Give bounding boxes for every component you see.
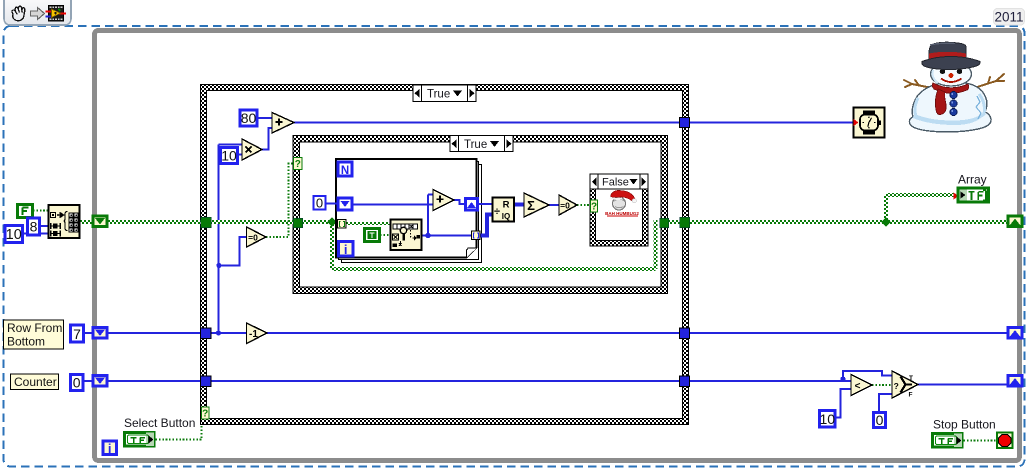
constant 7 (71, 325, 84, 342)
svg-text:i: i (344, 242, 348, 257)
hat (929, 42, 966, 59)
constant 80 (240, 110, 257, 126)
svg-text:8: 8 (30, 219, 38, 235)
shift register green up (loop right) (1008, 216, 1022, 227)
svg-text:N: N (341, 165, 349, 177)
constant 10 (left) (5, 226, 23, 244)
tunnel blue y=333 left (201, 328, 212, 339)
selector terminal ? of inner case (294, 158, 303, 171)
function add array elements (sum) (524, 193, 549, 217)
shift register blue down (counter) (93, 376, 107, 387)
eyes (940, 69, 946, 74)
svg-text:7: 7 (73, 326, 81, 342)
wire blue y=122 (+ output to Wait) (294, 122, 853, 124)
junction dot B (216, 330, 221, 335)
control terminal Select Button TF (125, 433, 155, 447)
svg-text:Counter: Counter (14, 375, 57, 389)
tool icon arrow (31, 8, 45, 20)
wire sum to equal zero (549, 204, 559, 206)
junction diamond green 1 (327, 217, 337, 227)
wire dotted green T to search node (380, 234, 390, 236)
shift register left (down arrow) (338, 198, 352, 210)
function add (inner) (433, 190, 454, 211)
scarf (932, 83, 969, 93)
selector terminal ? of false case (591, 200, 598, 213)
svg-text:80: 80 (241, 110, 257, 126)
svg-text:i: i (108, 441, 112, 456)
constant T (true) (365, 229, 380, 242)
svg-text:?: ? (295, 159, 301, 170)
wire multiply out to add (262, 128, 272, 150)
svg-text:?: ? (202, 409, 208, 420)
case structure CS3 (False) (590, 174, 648, 246)
tunnel auto-index left (bool array) (338, 220, 347, 229)
function multiply (242, 139, 262, 160)
node initialize array (49, 205, 80, 238)
wire blue y=333 (Row From Bottom) (84, 332, 1008, 334)
selector terminal ? of outer case (202, 407, 210, 420)
svg-text:=0: =0 (560, 201, 570, 211)
wire green bypass around for loop (332, 220, 1007, 269)
tunnel blue y=333 right (680, 328, 690, 339)
toolbar palette box (4, 0, 71, 25)
buttons (950, 91, 957, 115)
decoration snowman clipart (904, 42, 1004, 132)
indicator terminal Array [TF] (954, 188, 989, 202)
constant 0 (inner case) (314, 196, 326, 211)
wires 8 and 10 to init array (23, 226, 48, 234)
wire 10 to multiply (239, 154, 242, 156)
label Counter (11, 374, 59, 390)
loop condition terminal (stop sign) (997, 433, 1013, 449)
wire search out vertical to add (428, 195, 433, 236)
wire search out to index tunnel (422, 235, 472, 237)
junction diamond green 2 (881, 217, 891, 227)
wire 80 to add (258, 117, 272, 119)
subVI search 1D array U1 (391, 220, 422, 251)
smile (941, 79, 962, 83)
svg-text:0: 0 (73, 375, 81, 391)
tunnel green inner case right (660, 218, 669, 228)
tunnel green inner case left (293, 218, 303, 228)
svg-text:÷: ÷ (494, 206, 500, 218)
svg-text:Select Button: Select Button (124, 416, 195, 430)
constant 10 (outer case) (221, 148, 238, 164)
constant 0 (bottom) (874, 412, 886, 428)
control terminal Stop Button TF (933, 434, 963, 448)
case CS2 selector label "True" (450, 136, 513, 152)
junction dot A (216, 263, 221, 268)
svg-text:F: F (909, 392, 913, 399)
wire green main 2D array left (80, 220, 338, 224)
svg-text:10: 10 (820, 411, 836, 427)
function select (892, 371, 918, 399)
svg-text:True: True (427, 89, 450, 101)
tool icon hand (12, 6, 25, 21)
function equal to zero (inner) (559, 195, 577, 215)
right stick arm (974, 74, 1004, 88)
constant 10 (bottom) (820, 411, 836, 428)
function quotient &amp; remainder (493, 198, 515, 222)
tunnel blue y=381 right (680, 376, 690, 387)
head (931, 62, 972, 86)
wire right shift register to quotient node (478, 203, 493, 205)
shift register blue up (counter, right) (1008, 376, 1022, 387)
svg-text:BAH HUMBUG2: BAH HUMBUG2 (605, 211, 639, 216)
svg-text:0: 0 (316, 196, 323, 211)
junction dot search out (425, 233, 431, 239)
wire dotted green less-than to select (872, 384, 892, 386)
wire dotted green F to init array (33, 210, 48, 212)
tunnel blue y=122 right (680, 118, 690, 128)
wire add out to right shift register (454, 200, 465, 204)
constant 8 (28, 218, 40, 235)
svg-text:True: True (464, 139, 487, 151)
svg-text:=0: =0 (248, 233, 258, 243)
wire thick array index tunnel to quotient node (480, 215, 492, 236)
tool icon VI run (46, 6, 67, 22)
svg-text:2011: 2011 (994, 10, 1023, 25)
svg-text:<: < (855, 381, 861, 392)
function less than (851, 375, 872, 396)
wire dotted green stop button to loop condition (964, 440, 997, 442)
wire dotted equal-zero to false case selector (577, 204, 590, 206)
svg-text:10: 10 (221, 148, 237, 164)
nose (949, 73, 954, 78)
constant 0 (counter) (71, 375, 84, 391)
subVI santa icon (bah humbug) (605, 190, 639, 216)
function add (outer) (272, 113, 294, 134)
version tab 2011 (994, 9, 1025, 26)
svg-text:?: ? (894, 381, 899, 391)
for loop FL1 stacked sheets (336, 159, 482, 263)
node wait ms (wristwatch) (854, 108, 885, 138)
terminal i of while loop (103, 441, 117, 456)
tunnel green y=222 outer left (201, 217, 212, 228)
svg-text:Bottom: Bottom (7, 335, 45, 349)
svg-text:?: ? (591, 202, 597, 213)
tunnel auto-index right (numeric array) (472, 231, 481, 240)
function decrement -1 (247, 323, 268, 344)
wire dotted green select button to case selector (156, 425, 202, 440)
wire blue trunk x=218.5 (219, 145, 247, 334)
shift register blue up (row, right) (1008, 328, 1022, 339)
wire dotted green =0 to case selector (266, 164, 294, 238)
tunnel blue y=381 left (201, 376, 212, 387)
case structure CS2 (inner, True) hatched border (293, 136, 668, 294)
terminal i of for loop (339, 242, 354, 258)
svg-text:0: 0 (876, 412, 884, 428)
label Row From Bottom (4, 320, 64, 349)
svg-text:Stop Button: Stop Button (933, 418, 996, 432)
wire blue y=381 (Counter) (83, 380, 851, 382)
svg-text:Array: Array (958, 173, 987, 187)
left stick arm (904, 80, 932, 88)
case structure CS1 (outer, True) hatched border (201, 85, 689, 425)
wire green array branch to indicator (886, 195, 954, 222)
shift register blue down (row) (93, 328, 107, 339)
svg-text:Σ: Σ (527, 198, 535, 213)
wire thick quotient to sum (514, 203, 524, 207)
svg-text:10: 10 (6, 227, 22, 243)
case CS1 selector label "True" (413, 85, 476, 102)
wire shift register to add (352, 204, 433, 206)
constant F (false) (18, 205, 33, 218)
shift register right (up arrow) (466, 199, 478, 211)
function equal to zero (outer) (247, 227, 267, 247)
terminal N of for loop (338, 162, 352, 177)
svg-text:T: T (909, 375, 913, 382)
wire green 1D array inside for loop (346, 222, 391, 225)
shift register green down (loop left) (93, 216, 107, 227)
body (909, 82, 991, 132)
bottom-right select circuit wires (843, 371, 892, 381)
svg-text:IQ: IQ (502, 212, 510, 221)
svg-text:Row From: Row From (7, 321, 62, 335)
wire 0 to left shift register (326, 203, 338, 205)
svg-text:R: R (503, 200, 510, 211)
crack lines on body (976, 96, 981, 119)
svg-text:False: False (602, 177, 629, 189)
svg-text:-1: -1 (249, 329, 258, 340)
tunnel green y=222 outer right (680, 217, 690, 228)
